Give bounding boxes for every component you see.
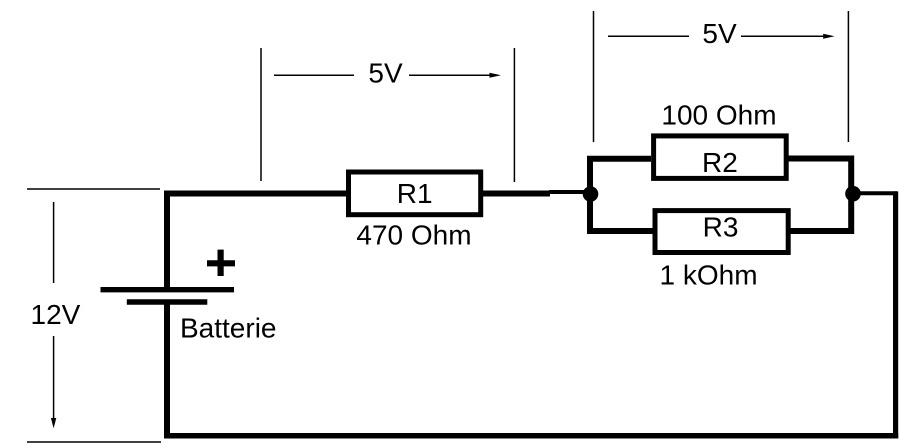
wire: right node to right return	[853, 191, 897, 195]
battery BT1 negative plate	[127, 299, 208, 304]
battery BT1 positive plate	[101, 287, 235, 292]
resistor R3	[655, 211, 788, 253]
svg-text:470 Ohm: 470 Ohm	[356, 220, 471, 251]
svg-text:5V: 5V	[368, 57, 403, 88]
wire: left parallel branch	[590, 159, 655, 231]
wire: battery negative terminal down to bottom rail	[164, 304, 170, 439]
svg-text:R2: R2	[702, 147, 738, 178]
wire: R1 output to left node (thick part)	[483, 191, 550, 197]
5V measurement reference line right (over R2/R3)	[847, 11, 849, 142]
5V measurement arrow (over R1)	[274, 73, 501, 78]
wire: right return vertical	[893, 191, 898, 438]
resistor R2	[654, 136, 787, 179]
5V measurement reference line left (over R1)	[260, 48, 262, 181]
node junction A (left)	[583, 186, 599, 202]
resistor R1	[349, 172, 481, 215]
svg-text:12V: 12V	[31, 299, 81, 330]
svg-text:5V: 5V	[702, 18, 737, 49]
wire: bottom return rail	[164, 433, 898, 439]
node junction B (right)	[845, 186, 861, 202]
wire: right parallel branch	[788, 159, 851, 232]
5V measurement arrow (over R2/R3)	[608, 34, 835, 39]
svg-text:100 Ohm: 100 Ohm	[661, 99, 776, 130]
12V measurement arrow	[51, 202, 56, 428]
wire: R1 output to left node (thin part)	[549, 190, 591, 194]
12V measurement reference line top	[27, 188, 160, 190]
svg-text:Batterie: Batterie	[180, 312, 277, 343]
12V measurement reference line bottom	[27, 441, 161, 443]
5V measurement reference line right (over R1)	[513, 48, 515, 182]
wire: battery positive terminal up and top rail to R1	[167, 194, 347, 289]
svg-text:R3: R3	[703, 211, 739, 242]
battery polarity plus sign	[207, 250, 235, 276]
5V measurement reference line left (over R2/R3)	[593, 11, 595, 142]
svg-text:R1: R1	[397, 178, 433, 209]
svg-text:1 kOhm: 1 kOhm	[659, 260, 757, 291]
